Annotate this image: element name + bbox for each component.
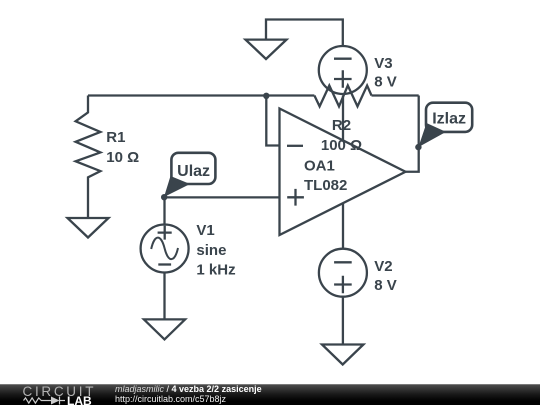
ground (below V2) [322, 345, 363, 365]
flag Izlaz box [426, 103, 472, 132]
wire inverting input [266, 96, 279, 146]
wire noninverting input [165, 196, 280, 198]
voltage source V3 [319, 46, 367, 94]
voltage source V1 sine [141, 225, 189, 273]
ground (below V1) [144, 319, 185, 339]
node junction at R1/R2 [263, 93, 269, 99]
resistor R2 zigzag [314, 86, 371, 107]
ground (below R1) [68, 218, 109, 238]
svg-text:http://circuitlab.com/c57b8jz: http://circuitlab.com/c57b8jz [115, 394, 227, 404]
footer bar [0, 384, 540, 405]
voltage source V2 [319, 249, 367, 297]
flag Izlaz pointer [418, 123, 446, 147]
op-amp supply pin bottom [342, 203, 344, 248]
op-amp plus symbol [287, 189, 304, 206]
flag Ulaz box [171, 153, 215, 184]
footer text [115, 384, 262, 404]
wire V1 top lead [163, 197, 165, 225]
CircuitLab logo [23, 384, 97, 405]
wire top-left horizontal from ground to V3 [266, 20, 343, 48]
svg-text:mladjasmilic / 4 vezba 2/2 zas: mladjasmilic / 4 vezba 2/2 zasicenje [115, 384, 262, 394]
ground (top left) [246, 40, 287, 59]
flag Ulaz pointer [164, 176, 190, 197]
op-amp supply pin top [342, 96, 344, 142]
resistor R1 [76, 96, 101, 219]
svg-text:LAB: LAB [67, 394, 92, 405]
node output flag attach [415, 144, 421, 150]
wire output [406, 96, 419, 172]
wire V2 bottom lead [342, 297, 344, 345]
wire main horizontal right segment [372, 94, 419, 96]
op-amp OA1 triangle [280, 109, 406, 236]
wire V1 bottom lead [163, 273, 165, 320]
op-amp minus symbol [287, 145, 303, 147]
wire main horizontal left segment [88, 94, 314, 96]
node input flag attach [161, 194, 167, 200]
